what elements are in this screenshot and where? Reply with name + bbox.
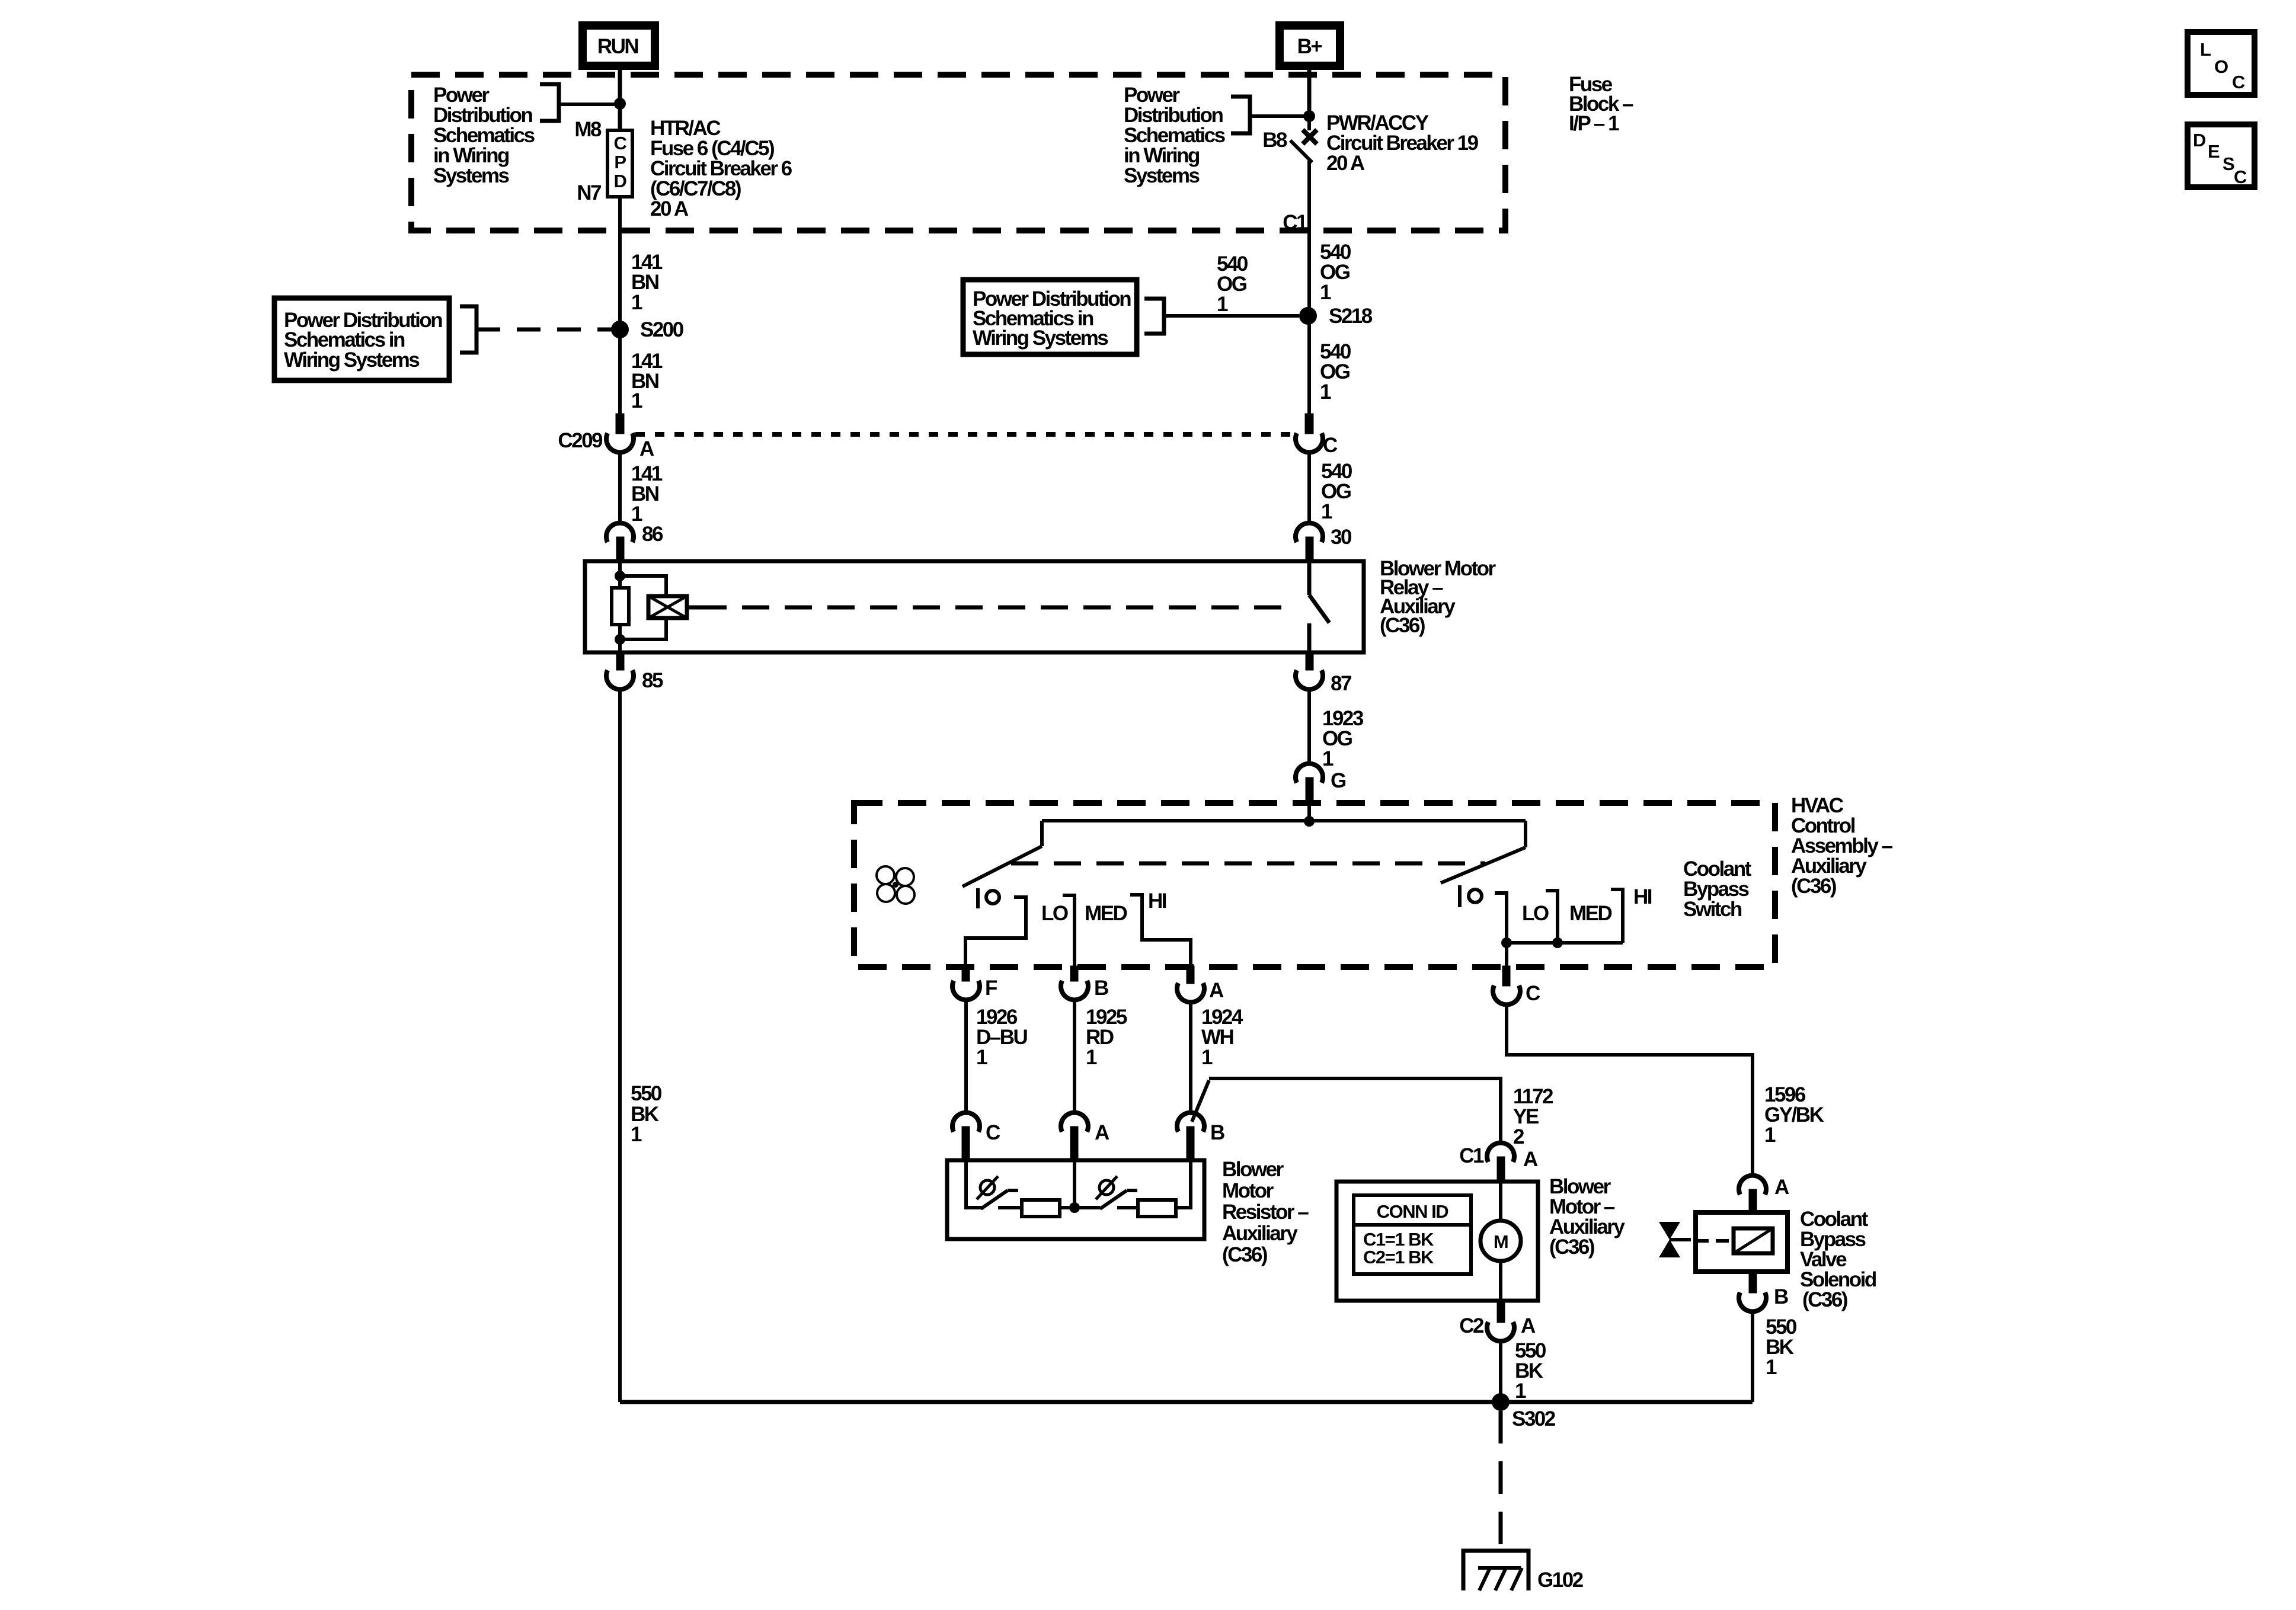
connector HVAC pin A — [1187, 966, 1194, 984]
ground G102 — [1463, 1551, 1528, 1590]
resistor element 1 — [1022, 1200, 1060, 1217]
svg-text:86: 86 — [642, 523, 663, 546]
svg-text:1: 1 — [631, 502, 642, 526]
wire branch to blower C1 — [1192, 1080, 1209, 1122]
node B8 feed junction — [1303, 110, 1315, 122]
coolant switch riser — [1524, 821, 1527, 847]
svg-text:L: L — [2200, 39, 2211, 60]
splice S200 — [611, 321, 629, 338]
wire C2 to S302 — [1499, 1340, 1502, 1402]
svg-text:LO: LO — [1522, 902, 1549, 925]
blower motor box — [1336, 1182, 1538, 1301]
blower motor resistor box — [947, 1160, 1204, 1239]
coil control stub — [687, 606, 699, 610]
svg-text:85: 85 — [642, 669, 663, 692]
svg-text:A: A — [639, 437, 654, 460]
thermal limiter 2 — [1099, 1180, 1114, 1195]
svg-text:Wiring Systems: Wiring Systems — [973, 327, 1108, 350]
wire RUN to fuse block junction — [618, 70, 622, 104]
DESC legend box — [2188, 124, 2255, 187]
wire bracket to S218 — [1164, 314, 1299, 318]
blower switch MED contact — [1063, 895, 1075, 967]
wire element 1 to node — [1060, 1206, 1100, 1209]
relay switch lower contact — [1307, 623, 1312, 652]
wire C209 to relay pin 86 — [618, 452, 622, 524]
relay switch blade — [1309, 595, 1329, 623]
svg-text:C: C — [2232, 72, 2245, 92]
wire C to solenoid A — [1507, 1004, 1753, 1176]
wire S200 to C209 — [618, 329, 622, 415]
svg-text:550: 550 — [631, 1082, 662, 1105]
splice S218 — [1299, 307, 1317, 325]
svg-text:30: 30 — [1331, 526, 1352, 549]
wire resistor to node — [618, 625, 622, 652]
motor M — [1480, 1221, 1521, 1261]
relay resistor — [612, 588, 629, 625]
thermal limiter 1 — [980, 1180, 994, 1195]
node LO junction — [1501, 937, 1512, 948]
svg-text:1: 1 — [631, 1123, 642, 1146]
connector relay pin 30 — [1296, 523, 1323, 542]
svg-text:S218: S218 — [1329, 305, 1373, 328]
svg-text:1: 1 — [1201, 1046, 1213, 1069]
wire breaker to S218 — [1307, 161, 1311, 316]
svg-text:(C36): (C36) — [1222, 1243, 1267, 1266]
svg-text:1: 1 — [631, 389, 642, 412]
svg-text:1: 1 — [976, 1046, 987, 1069]
ground bus wire — [620, 1400, 1753, 1404]
svg-text:S200: S200 — [640, 318, 684, 341]
node resistor mid — [1069, 1202, 1080, 1213]
svg-text:1: 1 — [1320, 380, 1331, 404]
svg-text:C: C — [1526, 982, 1540, 1005]
wire G into switch common — [1307, 803, 1311, 821]
terminal B+ — [1280, 25, 1340, 66]
connector blower C1 pin A — [1487, 1143, 1514, 1162]
relay switch fixed contact — [1307, 561, 1312, 595]
mechanical link dashed line — [1011, 862, 1485, 866]
svg-text:Switch: Switch — [1683, 898, 1742, 921]
wire B+ to junction — [1307, 70, 1312, 116]
HVAC control assembly dashed box — [854, 803, 1775, 967]
svg-text:C2: C2 — [1459, 1314, 1484, 1337]
svg-text:Blower: Blower — [1222, 1158, 1284, 1181]
svg-text:(C36): (C36) — [1791, 875, 1836, 898]
dashed relay control line — [699, 606, 1296, 610]
svg-text:C209: C209 — [558, 429, 603, 452]
connector solenoid pin A — [1739, 1176, 1766, 1195]
svg-text:1: 1 — [1320, 281, 1331, 304]
connector HVAC pin B — [1070, 966, 1078, 981]
svg-text:S302: S302 — [1512, 1407, 1556, 1430]
connector blower C2 pin A — [1497, 1301, 1505, 1323]
node coil top — [615, 571, 625, 581]
coolant switch MED contact — [1546, 891, 1558, 943]
svg-text:M8: M8 — [574, 118, 602, 141]
wire A to resistor B — [1189, 1001, 1192, 1113]
bracket callout (top left) — [540, 84, 559, 121]
svg-text:HI: HI — [1148, 889, 1166, 913]
svg-text:A: A — [1209, 979, 1224, 1002]
relay coil box — [648, 596, 687, 618]
bracket callout (left box) — [460, 306, 477, 353]
blower switch blade — [962, 846, 1042, 886]
svg-text:1: 1 — [1766, 1356, 1777, 1379]
svg-text:1: 1 — [1086, 1046, 1097, 1069]
svg-text:M: M — [1494, 1231, 1508, 1252]
coolant switch HI contact — [1611, 889, 1623, 943]
svg-text:Auxiliary: Auxiliary — [1222, 1222, 1298, 1245]
coolant switch wiper post — [1458, 885, 1462, 907]
connector solenoid pin B — [1749, 1272, 1757, 1293]
svg-text:1: 1 — [1217, 293, 1228, 316]
blower switch wiper contact — [986, 891, 999, 904]
svg-text:O: O — [2214, 56, 2228, 77]
wire bracket to node M8 feed — [559, 103, 620, 106]
svg-text:G102: G102 — [1537, 1569, 1584, 1592]
switch blade 2 — [1100, 1190, 1127, 1209]
relay coil feed wire — [618, 561, 622, 588]
svg-text:MED: MED — [1085, 902, 1127, 925]
valve symbol — [1659, 1222, 1680, 1240]
wire to resistor element 1 — [998, 1206, 1022, 1209]
wire node to pin A — [1073, 1160, 1076, 1208]
svg-text:20 A: 20 A — [650, 197, 689, 220]
circuit breaker PWR/ACCY 19 contact X — [1307, 116, 1311, 130]
svg-text:N7: N7 — [577, 181, 601, 204]
connector C209 dotted joint line — [635, 432, 1294, 437]
CONN ID table — [1354, 1195, 1471, 1274]
blower switch wiper post — [976, 888, 980, 908]
switch blade 1 — [981, 1190, 1008, 1209]
svg-text:B: B — [1210, 1121, 1224, 1144]
svg-text:A: A — [1774, 1176, 1789, 1199]
connector relay pin 85 — [616, 652, 624, 670]
node common junction — [1304, 816, 1315, 827]
connector resistor pin B — [1177, 1113, 1204, 1132]
splice S302 — [1492, 1393, 1510, 1411]
svg-text:S: S — [2223, 153, 2234, 174]
svg-text:F: F — [985, 977, 997, 1000]
wire junction to CPD fuse — [618, 104, 622, 132]
svg-text:Systems: Systems — [433, 164, 510, 187]
svg-text:B8: B8 — [1262, 129, 1287, 152]
motor wires — [1499, 1182, 1502, 1222]
svg-text:CONN ID: CONN ID — [1377, 1201, 1449, 1222]
dashed wire S302 to G102 — [1499, 1411, 1503, 1551]
connector C209 pin A — [616, 414, 624, 434]
dashed wire to S200 — [477, 328, 613, 332]
svg-text:A: A — [1523, 1148, 1538, 1171]
blower switch LO contact — [965, 897, 1026, 967]
resistor element 2 — [1138, 1200, 1176, 1217]
resistor internal input C — [966, 1160, 983, 1208]
svg-text:D: D — [2193, 130, 2206, 151]
coolant switch output bus — [1507, 941, 1623, 945]
blower switch riser — [1040, 821, 1044, 846]
svg-text:(C36): (C36) — [1380, 614, 1425, 637]
svg-text:Motor: Motor — [1222, 1179, 1274, 1202]
solenoid dashed actuator line — [1696, 1239, 1734, 1243]
wire B to ground bus — [1751, 1311, 1754, 1402]
svg-text:1: 1 — [1321, 500, 1332, 523]
connector relay pin 87 — [1306, 652, 1313, 670]
svg-text:20 A: 20 A — [1326, 152, 1365, 175]
svg-text:D: D — [614, 171, 627, 191]
circuit breaker blade B8 — [1290, 140, 1312, 162]
svg-text:E: E — [2208, 141, 2220, 162]
svg-text:C: C — [1323, 434, 1338, 457]
wire to resistor element 2 — [1117, 1206, 1138, 1209]
LOC legend box — [2188, 32, 2255, 95]
svg-text:P: P — [614, 152, 626, 172]
svg-text:LO: LO — [1041, 902, 1068, 925]
svg-text:A: A — [1521, 1314, 1536, 1337]
wire 85 down to ground bus — [618, 689, 622, 1402]
wire F to resistor C — [964, 999, 968, 1113]
svg-text:C: C — [614, 133, 627, 153]
svg-text:1: 1 — [1515, 1379, 1526, 1403]
coolant switch blade — [1441, 847, 1526, 883]
svg-text:Systems: Systems — [1124, 164, 1200, 187]
svg-text:B: B — [1094, 977, 1108, 1000]
node coil bottom — [615, 634, 625, 645]
wire element 2 to pin B — [1176, 1160, 1191, 1208]
node M8 feed junction — [614, 98, 626, 110]
bracket callout (top right) — [1231, 97, 1250, 133]
svg-text:C1: C1 — [1459, 1144, 1484, 1167]
coolant switch wiper contact — [1469, 889, 1482, 902]
connector HVAC pin F — [962, 966, 970, 981]
coolant switch LO contact — [1495, 893, 1507, 943]
svg-text:(C36): (C36) — [1549, 1235, 1594, 1259]
svg-text:MED: MED — [1569, 902, 1612, 925]
svg-text:1: 1 — [1764, 1124, 1776, 1147]
box Power Distribution (mid right) — [963, 280, 1137, 354]
svg-text:RUN: RUN — [597, 35, 638, 58]
svg-text:A: A — [1095, 1121, 1109, 1144]
node MED junction — [1552, 937, 1563, 948]
svg-text:HI: HI — [1633, 885, 1652, 908]
wire bracket to junction — [1250, 114, 1309, 118]
svg-text:C1: C1 — [1283, 211, 1307, 234]
svg-text:B+: B+ — [1297, 35, 1323, 58]
wire B to resistor A — [1073, 999, 1076, 1113]
svg-text:C: C — [2234, 167, 2247, 187]
connector C209 pin C — [1305, 414, 1313, 434]
connector resistor pin A — [1061, 1113, 1088, 1132]
svg-text:G: G — [1331, 769, 1346, 792]
relay box Blower Motor Relay - Auxiliary — [585, 561, 1364, 652]
svg-text:1: 1 — [1322, 747, 1334, 770]
svg-text:C2=1 BK: C2=1 BK — [1363, 1247, 1434, 1267]
connector HVAC pin C — [1502, 966, 1510, 986]
svg-text:C: C — [986, 1121, 1000, 1144]
connector resistor pin C — [952, 1113, 980, 1132]
fuse CPD — [607, 130, 632, 197]
fan icon — [877, 866, 914, 904]
wire C209 C to relay pin 30 — [1307, 452, 1311, 524]
wire CPD to S200 — [618, 197, 622, 329]
svg-text:Resistor –: Resistor – — [1222, 1201, 1309, 1224]
coolant bypass valve solenoid box — [1696, 1212, 1787, 1272]
wire coil branch bottom — [620, 618, 666, 639]
wire to pin C — [1505, 943, 1508, 967]
svg-text:Wiring Systems: Wiring Systems — [284, 348, 420, 372]
connector HVAC pin G — [1296, 764, 1323, 783]
blower switch HI contact — [1130, 895, 1191, 967]
bracket callout (mid right box) — [1144, 299, 1164, 334]
svg-text:I/P – 1: I/P – 1 — [1569, 112, 1619, 135]
svg-text:2: 2 — [1513, 1125, 1524, 1148]
terminal RUN — [583, 25, 655, 66]
box Power Distribution (left) — [274, 298, 449, 380]
solenoid coil — [1734, 1228, 1773, 1253]
wire coil branch top — [620, 576, 666, 596]
wire S218 to C209 C — [1307, 316, 1311, 415]
svg-text:1: 1 — [631, 291, 642, 314]
connector relay pin 86 — [606, 523, 634, 542]
fuse block dashed box — [411, 75, 1505, 231]
switch common bus — [1042, 819, 1526, 822]
svg-text:87: 87 — [1331, 672, 1351, 695]
svg-text:(C36): (C36) — [1802, 1288, 1847, 1311]
svg-text:B: B — [1774, 1285, 1788, 1308]
wire 87 to G — [1307, 689, 1311, 764]
